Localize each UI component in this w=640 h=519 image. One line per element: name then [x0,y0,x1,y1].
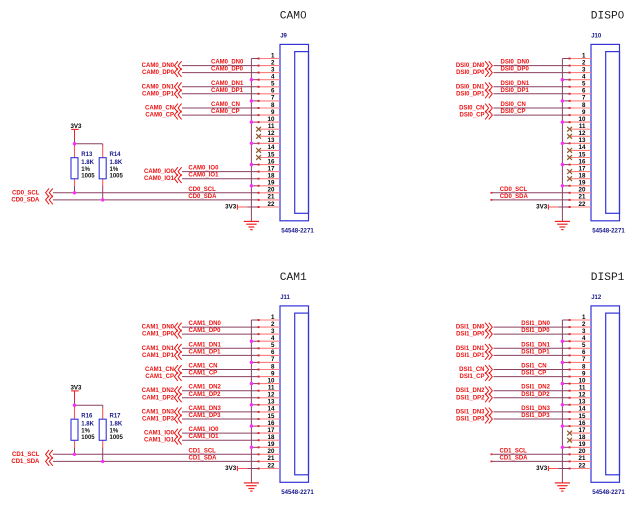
wire GND pin 1 [251,58,258,60]
wire GND bus [561,59,563,222]
svg-text:3V3: 3V3 [225,465,237,472]
svg-text:CAM1_DN0: CAM1_DN0 [189,321,222,327]
no-connect pin 17 [567,431,572,436]
svg-text:CAM1_DP3: CAM1_DP3 [189,413,222,419]
svg-text:DSI1_DN3: DSI1_DN3 [456,409,485,415]
pin 2 [569,59,591,66]
power 3V3 pin 22 [536,203,558,210]
wire DSI1_DP1 [494,354,570,356]
title DISP1 [591,272,625,284]
pin 11 [258,385,280,392]
pin 8 [569,102,591,109]
wire GND pin 7 [251,100,258,102]
wire GND bus [250,320,252,483]
power 3V3 pin 22 [225,203,247,210]
off-page connector DSI1_CP [485,372,492,381]
wire GND pin 19 [251,185,258,187]
wire CAM1_DN2 [182,390,259,392]
svg-text:DSI1_DN1: DSI1_DN1 [456,346,485,352]
off-page connector CAM0_DN1 [174,82,181,91]
title DISP0 [591,11,625,23]
svg-text:DSI1_DP1: DSI1_DP1 [456,353,485,359]
wire R14 to bus [102,186,104,200]
svg-text:DSI0_CP: DSI0_CP [501,109,526,115]
off-page connector CAM0_CP [174,111,181,120]
svg-text:12: 12 [579,392,586,399]
junction [250,340,253,343]
svg-text:5: 5 [582,81,586,88]
connector J11 54548-2271 [280,306,309,482]
svg-text:21: 21 [268,194,275,201]
svg-text:18: 18 [579,434,586,441]
svg-text:19: 19 [268,441,275,448]
off-page connector CAM0_IO0 [174,167,181,176]
junction [561,120,564,123]
pin 15 [570,151,591,158]
pin 5 [569,81,591,88]
junction [250,78,253,81]
svg-text:10: 10 [579,116,586,123]
svg-text:17: 17 [268,165,275,172]
svg-text:9: 9 [271,109,275,116]
off-page connector DSI1_CN [485,365,492,374]
svg-text:12: 12 [268,130,275,137]
wire CD0_SDA [491,199,570,201]
resistor R14 1.8K [99,146,106,187]
wire GND pin 13 [251,404,258,406]
pin 6 [258,349,280,356]
wire 3V3 [247,206,258,208]
svg-text:CAM0_DP0: CAM0_DP0 [142,70,175,76]
svg-text:13: 13 [579,399,586,406]
svg-text:11: 11 [268,123,275,130]
svg-text:1: 1 [582,52,586,59]
svg-text:CAM0_DN1: CAM0_DN1 [211,81,244,87]
wire DSI0_DP0 [494,72,570,74]
svg-text:J9: J9 [280,34,287,40]
svg-text:CD1_SCL: CD1_SCL [12,452,40,458]
wire GND bus [561,320,563,483]
wire 3V3 [558,206,569,208]
svg-text:1005: 1005 [110,173,124,179]
pin 12 [570,130,591,137]
pin 13 [258,399,280,406]
svg-text:4: 4 [271,74,275,81]
connector J10 54548-2271 [591,44,620,220]
junction [561,99,564,102]
wire GND pin 13 [251,142,258,144]
svg-text:5: 5 [271,81,275,88]
wire GND pin 16 [562,164,569,166]
svg-text:11: 11 [579,385,586,392]
svg-text:3: 3 [271,66,275,73]
wire CAM0_DP0 [182,72,259,74]
svg-text:13: 13 [268,137,275,144]
svg-text:3: 3 [271,328,275,335]
wire CAM1_IO1 [182,439,259,441]
pin 19 [569,441,591,448]
svg-text:14: 14 [579,144,586,151]
svg-text:DSI0_DP1: DSI0_DP1 [501,88,530,94]
svg-text:3V3: 3V3 [225,203,237,210]
svg-text:DSI0_DN0: DSI0_DN0 [501,60,530,66]
svg-text:1005: 1005 [81,173,95,179]
svg-text:DSI1_DP3: DSI1_DP3 [456,417,485,423]
wire GND pin 16 [251,425,258,427]
svg-text:8: 8 [582,363,586,370]
off-page connector CAM1_DP1 [174,351,181,360]
svg-text:3V3: 3V3 [70,384,82,391]
svg-text:DISP1: DISP1 [591,272,625,284]
svg-text:CAM1_DP2: CAM1_DP2 [189,392,222,398]
svg-text:1005: 1005 [110,435,124,441]
pin 17 [570,427,591,434]
svg-text:DSI0_CN: DSI0_CN [501,102,526,108]
pin 2 [258,59,280,66]
junction [561,340,564,343]
pin 16 [258,158,280,165]
title CAM0 [280,11,307,23]
pin 2 [258,321,280,328]
pin 9 [569,370,591,377]
pin 20 [569,187,591,194]
svg-text:CAM1_IO0: CAM1_IO0 [189,427,220,433]
svg-text:CD1_SCL: CD1_SCL [500,448,528,454]
svg-text:CAM1_IO0: CAM1_IO0 [144,431,175,437]
svg-text:19: 19 [579,441,586,448]
wire CD1_SCL [491,453,570,455]
pin 4 [258,74,280,81]
ground [555,221,570,229]
svg-text:14: 14 [579,406,586,413]
off-page connector DSI0_CN [485,104,492,113]
svg-text:9: 9 [582,370,586,377]
pin 15 [259,151,280,158]
pin 19 [258,180,280,187]
pin 5 [569,342,591,349]
pin 8 [258,102,280,109]
wire DSI0_CN [494,107,570,109]
svg-text:CAM1_DN3: CAM1_DN3 [189,406,222,412]
svg-text:CAM1_CN: CAM1_CN [145,367,174,373]
junction [250,446,253,449]
off-page connector CAM1_IO1 [174,436,181,445]
junction [73,404,76,407]
pin 6 [569,349,591,356]
wire GND pin 13 [562,142,569,144]
junction [561,78,564,81]
svg-text:R16: R16 [81,414,93,420]
wire CAM0_DN0 [182,65,259,67]
pin 6 [569,88,591,95]
pin 14 [259,144,280,151]
svg-text:21: 21 [579,194,586,201]
svg-text:4: 4 [271,335,275,342]
svg-text:J11: J11 [280,295,290,301]
svg-text:10: 10 [268,116,275,123]
off-page connector DSI1_DP2 [485,393,492,402]
junction [250,99,253,102]
svg-text:2: 2 [271,59,275,66]
junction [250,120,253,123]
svg-text:1.8K: 1.8K [110,422,123,428]
connector J12 54548-2271 [591,306,620,482]
svg-text:1.8K: 1.8K [81,160,94,166]
off-page connector DSI0_DP1 [485,89,492,98]
wire GND pin 1 [251,319,258,321]
svg-text:DSI1_DN0: DSI1_DN0 [456,325,485,331]
pin 21 [569,455,591,462]
svg-text:13: 13 [268,399,275,406]
wire GND pin 1 [562,319,569,321]
junction [561,424,564,427]
svg-text:CD1_SCL: CD1_SCL [189,448,217,454]
wire GND pin 19 [562,446,569,448]
svg-text:CAM1_IO1: CAM1_IO1 [189,434,220,440]
svg-text:R14: R14 [110,152,122,158]
svg-text:15: 15 [268,151,275,158]
svg-text:20: 20 [268,187,275,194]
off-page connector CD0_SDA [46,196,53,205]
pin 1 [258,52,280,59]
svg-text:CD0_SDA: CD0_SDA [500,194,529,200]
wire DSI1_CN [494,369,570,371]
svg-text:3: 3 [582,66,586,73]
pin 20 [569,448,591,455]
svg-text:5: 5 [271,342,275,349]
svg-text:CAM1_DN1: CAM1_DN1 [142,346,175,352]
junction [250,403,253,406]
pin 3 [569,66,591,73]
svg-text:CAM0_CN: CAM0_CN [145,106,174,112]
pin 20 [258,448,280,455]
off-page connector CD1_SCL [46,450,53,459]
svg-text:1%: 1% [81,167,90,173]
pin 1 [569,52,591,59]
off-page connector CAM1_CN [174,365,181,374]
wire GND pin 7 [251,361,258,363]
wire CAM1_DN1 [182,347,259,349]
no-connect pin 15 [256,155,261,160]
no-connect pin 14 [567,148,572,153]
pin 4 [569,335,591,342]
svg-text:20: 20 [579,187,586,194]
wire DSI0_DN1 [494,86,570,88]
svg-text:CAM1_DP2: CAM1_DP2 [142,395,175,401]
wire DSI0_DN0 [494,65,570,67]
wire GND pin 7 [562,100,569,102]
svg-text:DSI1_DP1: DSI1_DP1 [521,349,550,355]
svg-text:54548-2271: 54548-2271 [592,489,625,496]
junction [561,142,564,145]
svg-text:CAM0_IO1: CAM0_IO1 [188,173,219,179]
svg-text:DSI1_CP: DSI1_CP [521,371,546,377]
wire CAM0_CN [182,107,259,109]
svg-text:54548-2271: 54548-2271 [281,228,314,235]
wire CAM1_DP1 [182,354,259,356]
svg-text:15: 15 [579,413,586,420]
pin 17 [258,165,280,172]
off-page connector CAM0_IO1 [174,174,181,183]
power 3V3 pin 22 [536,465,558,472]
svg-text:3V3: 3V3 [536,465,548,472]
pin 11 [569,385,591,392]
svg-text:CD1_SDA: CD1_SDA [189,455,218,461]
svg-text:2: 2 [582,59,586,66]
junction [73,191,76,194]
pin 9 [258,109,280,116]
no-connect pin 17 [567,169,572,174]
pin 7 [569,95,591,102]
off-page connector CD1_SDA [46,457,53,466]
junction [73,453,76,456]
junction [101,198,104,201]
pin 3 [258,66,280,73]
svg-text:3: 3 [582,328,586,335]
wire CD0_SDA [53,199,259,201]
svg-text:6: 6 [271,88,275,95]
no-connect pin 18 [567,438,572,443]
wire GND pin 19 [562,185,569,187]
off-page connector DSI0_DN1 [485,82,492,91]
svg-text:CAM1_DN1: CAM1_DN1 [189,342,222,348]
wire R16 to bus [74,448,76,455]
wire DSI1_DP3 [494,418,570,420]
svg-text:7: 7 [271,356,275,363]
svg-text:DSI0_DN1: DSI0_DN1 [456,84,485,90]
wire CAM1_CP [182,376,259,378]
no-connect pin 14 [256,148,261,153]
wire DSI1_DP2 [494,397,570,399]
no-connect pin 11 [256,127,261,132]
svg-text:54548-2271: 54548-2271 [281,489,314,496]
svg-text:DSI0_DP0: DSI0_DP0 [456,70,485,76]
pin 5 [258,342,280,349]
svg-text:DSI0_DN0: DSI0_DN0 [456,63,485,69]
pin 15 [569,413,591,420]
svg-text:DSI1_CN: DSI1_CN [459,367,484,373]
wire DSI1_CP [494,376,570,378]
svg-text:11: 11 [268,385,275,392]
wire CAM0_CP [182,114,259,116]
svg-text:CAM0_DN0: CAM0_DN0 [142,63,175,69]
no-connect pin 18 [567,176,572,181]
pin 4 [258,335,280,342]
wire GND pin 4 [251,340,258,342]
pin 2 [569,321,591,328]
wire CAM1_DP3 [182,418,259,420]
svg-text:DSI0_CN: DSI0_CN [459,106,484,112]
svg-text:CAM0_DP1: CAM0_DP1 [142,91,175,97]
svg-text:3V3: 3V3 [536,203,548,210]
svg-text:15: 15 [268,413,275,420]
svg-text:CAM1_CN: CAM1_CN [189,364,218,370]
pin 22 [569,201,591,208]
svg-text:DSI1_DN2: DSI1_DN2 [456,388,485,394]
svg-text:10: 10 [579,377,586,384]
pin 16 [569,158,591,165]
pin 17 [570,165,591,172]
pin 1 [569,314,591,321]
wire GND pin 7 [562,361,569,363]
svg-text:1.8K: 1.8K [110,160,123,166]
junction [561,184,564,187]
svg-text:6: 6 [271,349,275,356]
svg-text:CAM0: CAM0 [280,11,307,23]
title CAM1 [280,272,307,284]
svg-text:20: 20 [268,448,275,455]
pin 15 [258,413,280,420]
connector J9 54548-2271 [280,44,309,220]
off-page connector CAM0_DN0 [174,61,181,70]
svg-text:4: 4 [582,74,586,81]
svg-text:7: 7 [582,95,586,102]
wire DSI1_DP0 [494,333,570,335]
pin 18 [258,173,280,180]
junction [250,382,253,385]
pin 12 [259,130,280,137]
svg-text:5: 5 [582,342,586,349]
pin 20 [258,187,280,194]
off-page connector DSI1_DN3 [485,408,492,417]
svg-text:1005: 1005 [81,435,95,441]
svg-text:DSI1_DP0: DSI1_DP0 [456,332,485,338]
wire CAM1_IO0 [182,432,259,434]
junction [561,163,564,166]
off-page connector DSI0_DN0 [485,61,492,70]
power 3V3 pull-ups [70,123,82,140]
svg-text:16: 16 [579,158,586,165]
resistor R16 1.8K [71,407,78,448]
off-page connector DSI1_DP1 [485,351,492,360]
junction [250,142,253,145]
svg-text:16: 16 [268,420,275,427]
svg-text:DSI1_DN2: DSI1_DN2 [521,385,550,391]
off-page connector DSI0_DP0 [485,68,492,77]
svg-text:DSI0_DP0: DSI0_DP0 [501,67,530,73]
svg-text:CD0_SCL: CD0_SCL [188,187,216,193]
wire CAM1_DN0 [182,326,259,328]
off-page connector CD0_SCL [46,188,53,197]
svg-text:CAM1_IO1: CAM1_IO1 [144,438,175,444]
wire CAM0_DP1 [182,93,259,95]
svg-text:22: 22 [268,201,275,208]
off-page connector DSI1_DN2 [485,386,492,395]
pin 3 [569,328,591,335]
svg-text:3V3: 3V3 [70,123,82,130]
pin 13 [569,137,591,144]
svg-text:19: 19 [579,180,586,187]
wire GND pin 10 [251,121,258,123]
wire DSI0_CP [494,114,570,116]
svg-text:R17: R17 [110,414,122,420]
svg-text:DSI1_DP2: DSI1_DP2 [521,392,550,398]
off-page connector DSI0_CP [485,111,492,120]
svg-text:CAM1_DN2: CAM1_DN2 [189,385,222,391]
svg-text:6: 6 [582,88,586,95]
pin 4 [569,74,591,81]
svg-text:8: 8 [271,102,275,109]
wire 3V3 [558,468,569,470]
pin 21 [258,455,280,462]
wire GND pin 4 [562,79,569,81]
svg-text:2: 2 [271,321,275,328]
pin 13 [569,399,591,406]
junction [250,184,253,187]
svg-text:CAM0_DP1: CAM0_DP1 [211,88,244,94]
svg-text:DSI0_DP1: DSI0_DP1 [456,91,485,97]
svg-text:20: 20 [579,448,586,455]
